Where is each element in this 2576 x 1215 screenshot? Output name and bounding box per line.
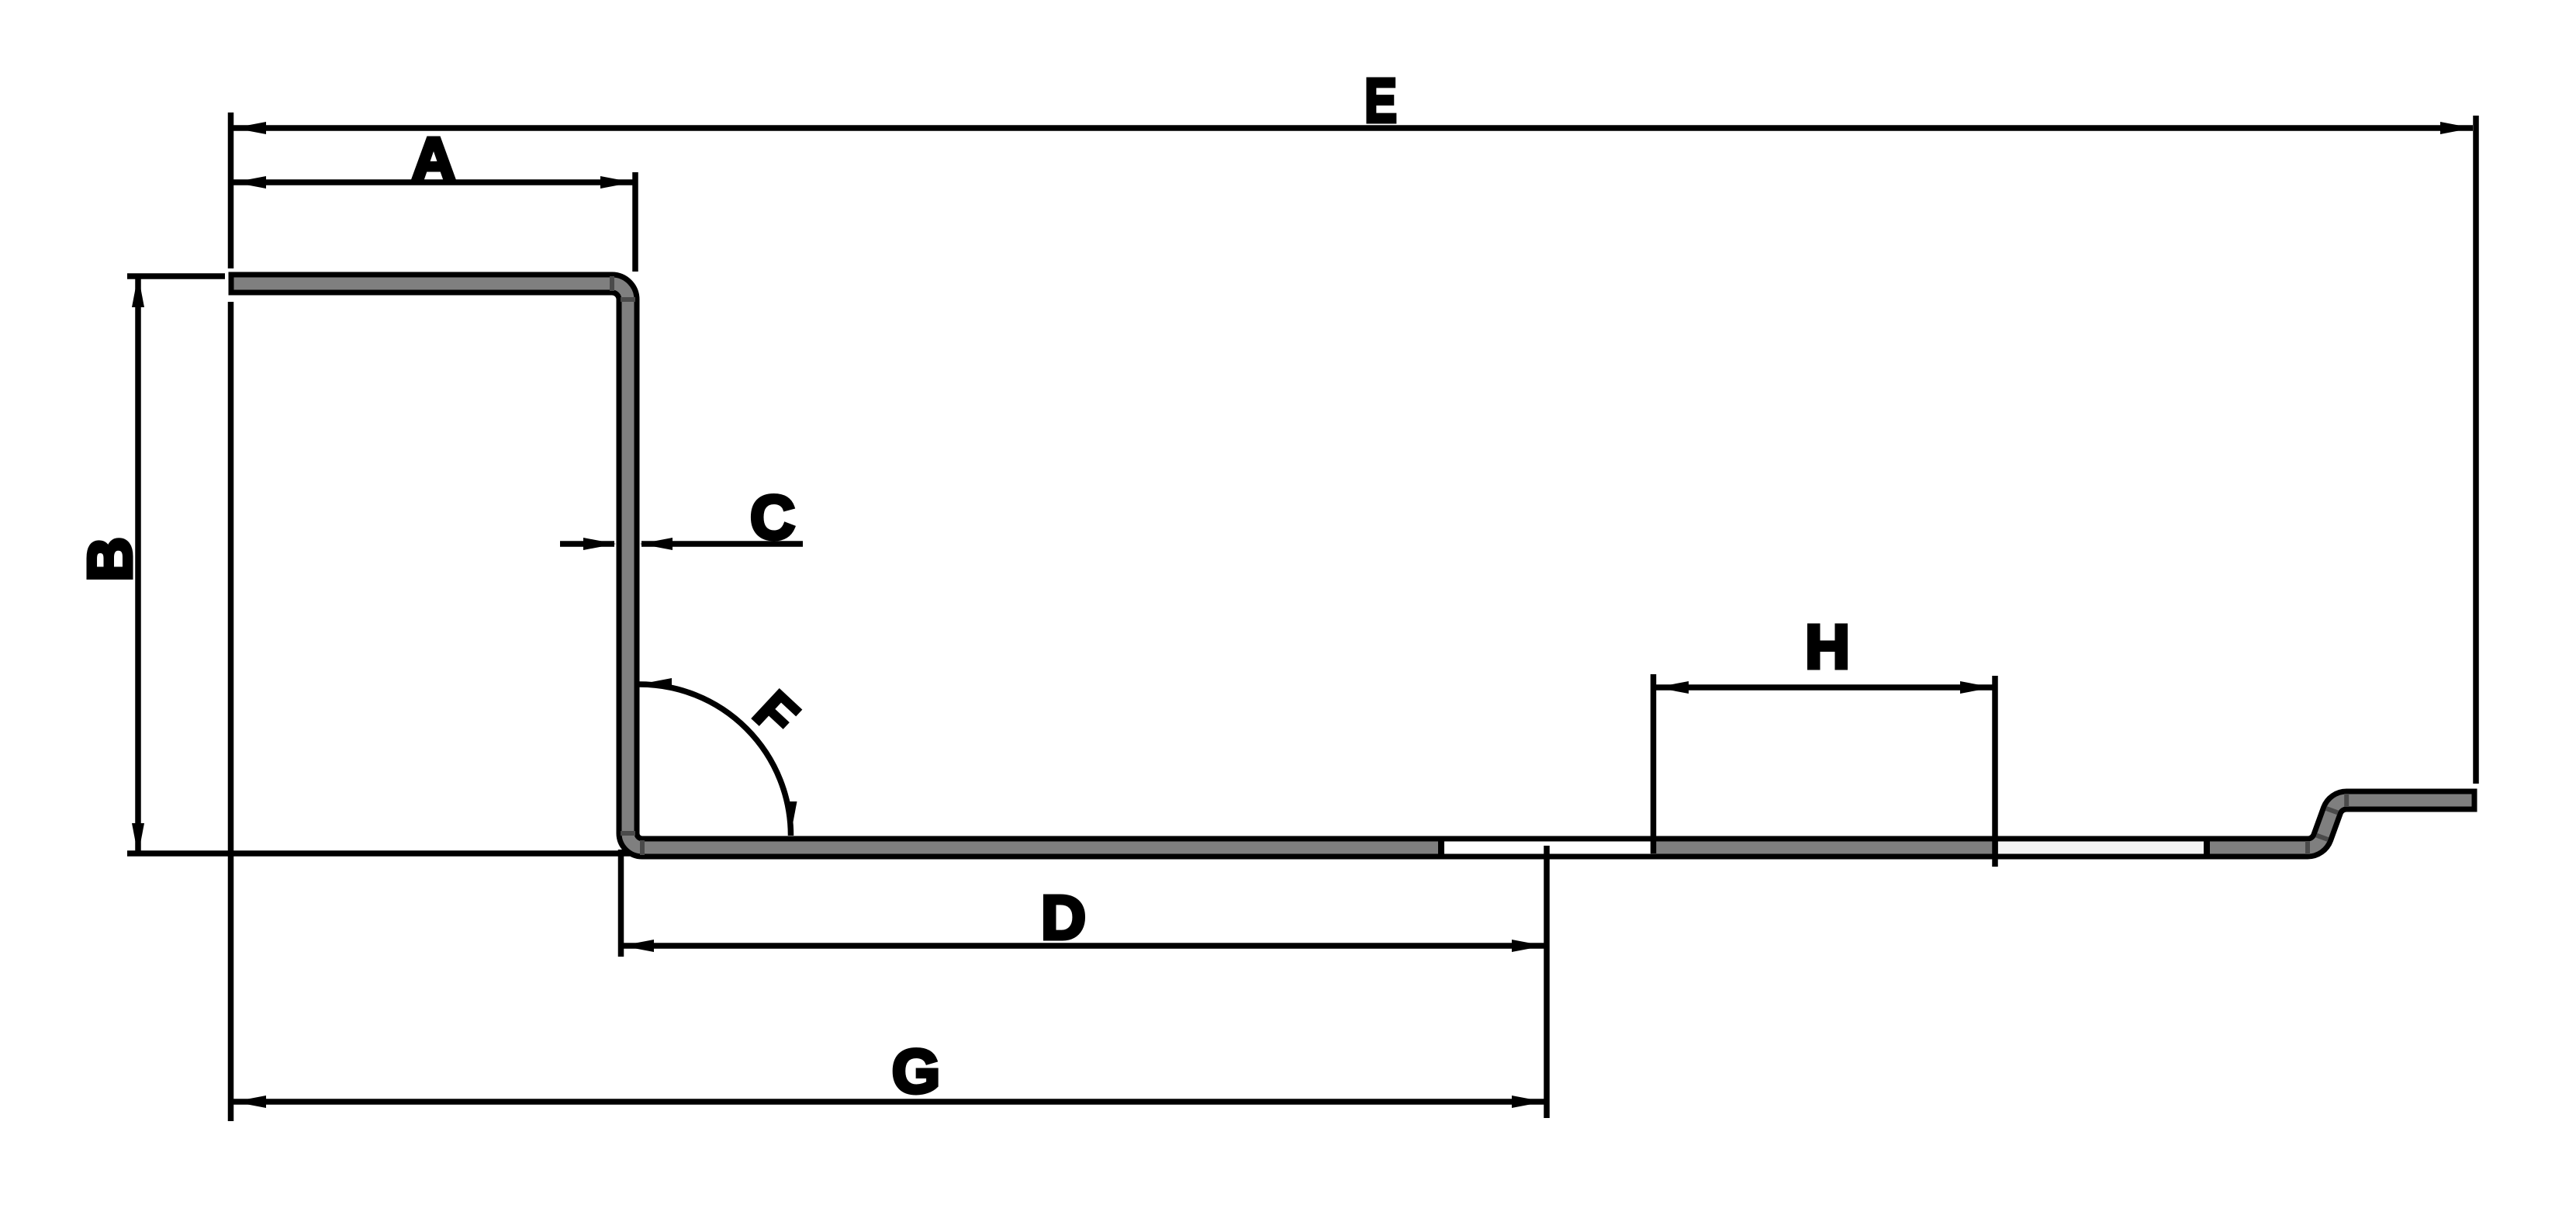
bend mitre line top bend vertical xyxy=(610,276,614,291)
dimension line D xyxy=(621,943,1544,949)
white break segment in bottom flange xyxy=(1444,842,1651,854)
sheet-metal profile body xyxy=(231,275,2474,857)
extension line B top xyxy=(127,273,225,279)
break divider right xyxy=(2204,836,2210,859)
label B xyxy=(75,537,144,582)
joggle mitre lower xyxy=(2316,836,2328,840)
extension line E right xyxy=(2473,116,2479,784)
extension line H left xyxy=(1651,674,1657,853)
label F xyxy=(742,680,810,749)
angle dimension F arc xyxy=(640,684,791,836)
bend mitre line bottom bend horizontal xyxy=(621,831,635,836)
joggle mitre upper xyxy=(2326,808,2338,813)
dimension line B xyxy=(135,277,141,853)
extension line A right xyxy=(632,172,638,272)
light break segment in bottom flange xyxy=(1998,842,2204,854)
dimension line C right xyxy=(641,541,803,547)
break divider left xyxy=(1438,836,1444,859)
extension line H right xyxy=(1992,676,1998,867)
dimension line C left xyxy=(560,541,614,547)
extension line D left xyxy=(618,850,624,957)
svg-text:E: E xyxy=(1364,67,1397,136)
svg-text:C: C xyxy=(750,483,795,552)
svg-text:A: A xyxy=(411,125,456,194)
bend mitre line bottom bend vertical xyxy=(640,840,645,855)
dimension line E xyxy=(233,125,2473,131)
svg-text:D: D xyxy=(1041,883,1086,952)
joggle divider lower xyxy=(2305,841,2310,854)
svg-text:G: G xyxy=(892,1037,940,1106)
extension line D G right xyxy=(1544,846,1550,1118)
svg-text:B: B xyxy=(75,537,144,582)
dimension line H xyxy=(1656,684,1993,691)
dimension line G xyxy=(233,1099,1544,1105)
joggle divider upper xyxy=(2344,794,2349,807)
svg-text:H: H xyxy=(1805,612,1850,681)
extension line left main xyxy=(228,112,234,268)
bend mitre line top bend horizontal xyxy=(621,297,635,302)
dimension line A xyxy=(233,179,633,185)
extension line B bottom xyxy=(127,850,630,857)
